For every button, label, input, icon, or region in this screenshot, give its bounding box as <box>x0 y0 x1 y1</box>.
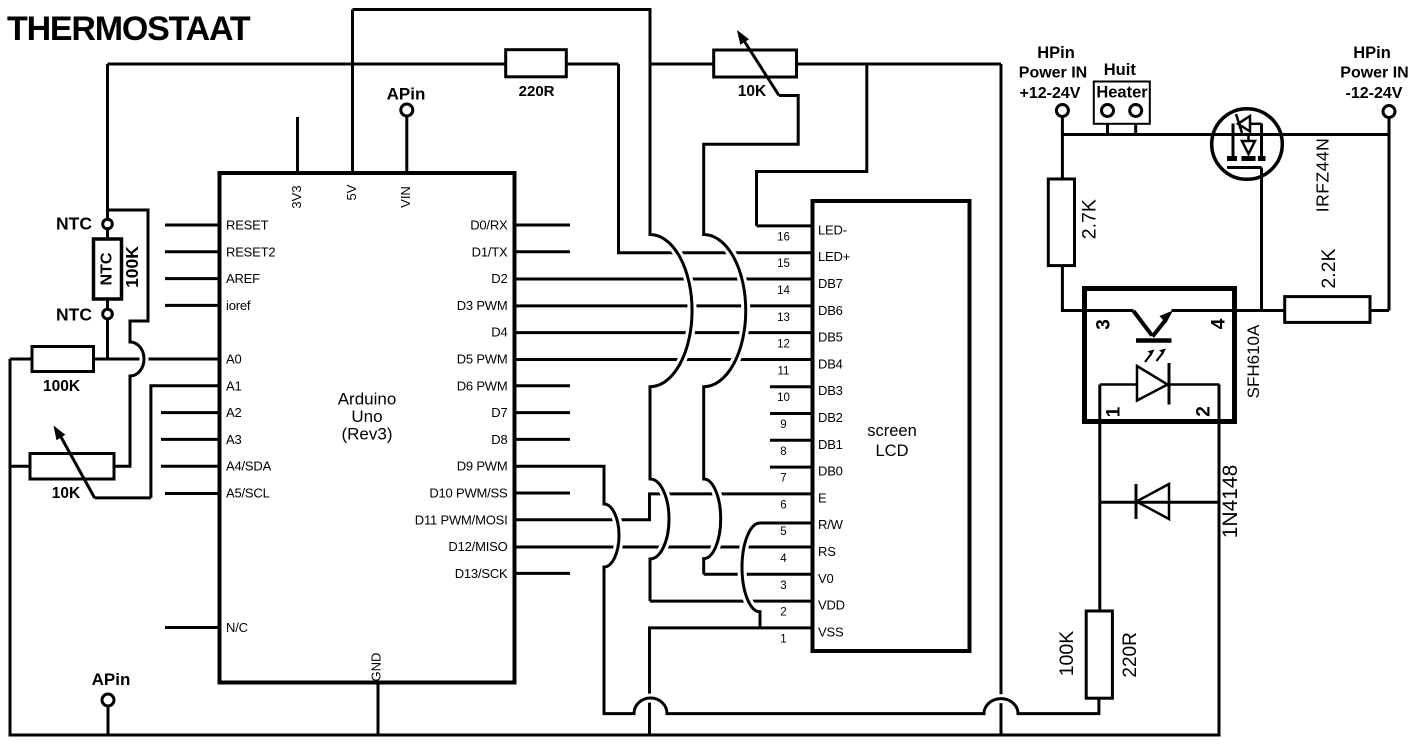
svg-text:14: 14 <box>777 285 790 297</box>
svg-text:D2: D2 <box>491 271 507 286</box>
svg-text:1: 1 <box>1104 406 1125 417</box>
svg-text:NTC: NTC <box>56 214 92 234</box>
wire HPin+ down <box>1061 117 1064 180</box>
wire opto pin4 to 2.2K <box>1172 309 1285 312</box>
wire VDD row <box>650 600 813 603</box>
wire VSS to ground <box>650 628 813 735</box>
wire D7 stub <box>515 411 571 414</box>
svg-text:7: 7 <box>780 473 786 485</box>
svg-text:9: 9 <box>780 419 786 431</box>
svg-text:DB7: DB7 <box>818 276 843 291</box>
Arduino U1 box <box>220 173 515 683</box>
svg-text:2.7K: 2.7K <box>1079 199 1101 239</box>
wire heater terminal leads <box>1108 117 1136 135</box>
svg-text:THERMOSTAAT: THERMOSTAAT <box>7 10 251 48</box>
svg-text:11: 11 <box>778 365 790 377</box>
label Arduino center text <box>338 390 397 444</box>
wire 5V top line to VDD with hops <box>353 10 693 602</box>
svg-text:1: 1 <box>780 633 786 645</box>
svg-text:100K: 100K <box>43 378 81 395</box>
resistor R4 2.2K box <box>1285 297 1370 323</box>
wire RESET stub <box>165 224 220 227</box>
svg-text:D10 PWM/SS: D10 PWM/SS <box>429 486 508 501</box>
svg-text:100K: 100K <box>122 246 142 288</box>
svg-text:Uno: Uno <box>351 407 382 426</box>
svg-text:A1: A1 <box>226 378 242 393</box>
potentiometer P1 10K box <box>30 454 114 480</box>
svg-text:A4/SDA: A4/SDA <box>226 459 272 474</box>
svg-text:Power IN: Power IN <box>1019 65 1087 82</box>
svg-text:10K: 10K <box>52 485 81 502</box>
svg-text:DB6: DB6 <box>818 303 843 318</box>
svg-text:SFH610A: SFH610A <box>1244 324 1263 398</box>
optocoupler U2 SFH610A box <box>1085 289 1235 422</box>
svg-text:D4: D4 <box>491 325 507 340</box>
potentiometer P2 arrow <box>737 30 779 96</box>
wire A5/SCL stub <box>165 492 220 495</box>
svg-text:Heater: Heater <box>1096 84 1148 102</box>
svg-text:5: 5 <box>780 526 786 538</box>
svg-text:D9 PWM: D9 PWM <box>457 459 508 474</box>
svg-text:IRFZ44N: IRFZ44N <box>1313 138 1333 212</box>
svg-text:GND: GND <box>368 653 383 682</box>
wire N/C stub <box>165 626 220 629</box>
wire LCD DB1 stub <box>770 439 813 442</box>
label screen LCD center text <box>867 422 917 460</box>
wire 2.2K to right rail <box>1370 309 1389 312</box>
wire ground left rail and bottom rail and right riser <box>10 359 1219 735</box>
svg-text:+12-24V: +12-24V <box>1020 85 1081 102</box>
svg-text:APin: APin <box>92 670 131 689</box>
wire drain rail y=134.5 <box>1062 133 1389 136</box>
svg-text:Huit: Huit <box>1104 61 1137 79</box>
potentiometer P1 arrow <box>54 426 95 498</box>
thermistor NTC 100K box <box>94 239 122 299</box>
svg-text:D11 PWM/MOSI: D11 PWM/MOSI <box>415 512 508 527</box>
wire pot P2 wiper to V0 with hops <box>704 96 799 575</box>
svg-text:DB5: DB5 <box>818 330 843 345</box>
svg-text:VIN: VIN <box>398 186 413 208</box>
diode D1 1N4148 <box>1136 484 1169 519</box>
heater connector box <box>1094 82 1150 124</box>
svg-text:12: 12 <box>777 339 790 351</box>
svg-text:LED-: LED- <box>818 222 847 237</box>
svg-text:AREF: AREF <box>226 271 260 286</box>
svg-text:3V3: 3V3 <box>289 185 304 208</box>
svg-text:5V: 5V <box>344 184 359 200</box>
wire D9 PWM to 100K/220R resistor with hops <box>515 466 1099 713</box>
svg-text:VSS: VSS <box>818 624 844 639</box>
wire NTC branch with hop over A0 to pot P1 <box>108 210 149 466</box>
wire pot GND riser <box>1000 64 1003 735</box>
svg-text:RESET: RESET <box>226 218 269 233</box>
wire D8 stub <box>515 438 571 441</box>
svg-text:VDD: VDD <box>818 598 845 613</box>
svg-text:Power IN: Power IN <box>1340 65 1408 82</box>
node APin terminal bottom <box>102 694 114 706</box>
wire V0 row <box>704 573 813 576</box>
svg-text:RS: RS <box>818 544 836 559</box>
label LCD pin numbers <box>777 231 790 645</box>
svg-text:DB1: DB1 <box>818 437 843 452</box>
svg-text:LCD: LCD <box>875 442 908 460</box>
svg-text:4: 4 <box>780 553 787 565</box>
node HPin- terminal <box>1383 106 1395 118</box>
svg-text:D5 PWM: D5 PWM <box>457 352 508 367</box>
wire A2 stub <box>161 411 220 414</box>
svg-text:2: 2 <box>1193 406 1214 417</box>
svg-text:D12/MISO: D12/MISO <box>448 539 507 554</box>
wire opto pin1 down to resistor <box>1098 385 1101 612</box>
svg-text:D3 PWM: D3 PWM <box>457 298 508 313</box>
wire 5V rail to pot P2 and GND riser <box>650 63 1001 66</box>
node heater terminal 1 <box>1102 105 1114 117</box>
wire HPin- right rail <box>1388 118 1391 311</box>
wire 220R to LCD LED+ <box>619 64 813 253</box>
svg-text:3: 3 <box>780 580 786 592</box>
svg-text:-12-24V: -12-24V <box>1346 85 1403 102</box>
svg-text:D8: D8 <box>491 432 507 447</box>
wire 3V3 stub <box>296 117 299 173</box>
svg-text:15: 15 <box>777 258 790 270</box>
wire wiper riser to A1 <box>151 386 220 498</box>
node NTC terminal top <box>103 219 113 229</box>
optocoupler U2 light arrows <box>1145 349 1166 363</box>
optocoupler U2 LED D2 <box>1100 363 1220 405</box>
svg-text:10: 10 <box>777 392 790 404</box>
transistor Q1 MOSFET IRFZ44N <box>1212 109 1283 180</box>
resistor R1 220R box <box>506 50 567 77</box>
wire LED- branch <box>757 64 867 226</box>
label Arduino left pins <box>226 218 275 636</box>
svg-text:V0: V0 <box>818 571 834 586</box>
svg-text:(Rev3): (Rev3) <box>341 425 392 444</box>
LCD module box <box>813 201 970 651</box>
wire APin bottom terminal to rail <box>107 706 110 735</box>
wire LCD DB3 stub <box>770 385 813 388</box>
svg-text:D13/SCK: D13/SCK <box>455 566 508 581</box>
wire 5V pin riser <box>351 10 354 174</box>
svg-text:220R: 220R <box>1120 632 1141 677</box>
svg-text:Arduino: Arduino <box>338 390 397 409</box>
wire D2 to LCD DB7 <box>515 278 813 281</box>
wire MOSFET gate riser <box>1260 168 1263 311</box>
label LCD pins <box>818 222 850 639</box>
svg-text:DB4: DB4 <box>818 356 843 371</box>
svg-text:2: 2 <box>780 607 786 619</box>
wire VIN to APin terminal <box>405 116 408 173</box>
svg-text:DB2: DB2 <box>818 410 843 425</box>
svg-text:10K: 10K <box>738 83 767 100</box>
svg-text:R/W: R/W <box>818 517 844 532</box>
resistor R3 2.7K box <box>1048 179 1074 266</box>
wire AREF stub <box>165 277 220 280</box>
wire A3 stub <box>161 438 220 441</box>
svg-text:6: 6 <box>780 499 786 511</box>
svg-text:4: 4 <box>1208 318 1229 329</box>
svg-text:NTC: NTC <box>99 252 116 285</box>
node HPin+ terminal <box>1056 105 1068 117</box>
wire pot P1 left lead <box>10 465 30 468</box>
svg-text:13: 13 <box>777 312 790 324</box>
wire D0/RX stub <box>515 224 571 227</box>
svg-text:2.2K: 2.2K <box>1318 248 1340 288</box>
wire D13 stub <box>515 572 571 575</box>
wire 2.7K to opto pin3 <box>1062 266 1133 311</box>
svg-text:HPin: HPin <box>1353 44 1391 62</box>
svg-text:N/C: N/C <box>226 620 248 635</box>
wire A0 to Arduino <box>108 358 220 361</box>
svg-text:100K: 100K <box>1056 631 1078 677</box>
svg-text:DB0: DB0 <box>818 464 843 479</box>
wire D5 to LCD DB4 <box>515 358 813 361</box>
wire RESET2 stub <box>165 250 220 253</box>
resistor R2 100K box <box>32 347 94 372</box>
wire LCD pin16 stub <box>757 224 813 227</box>
wire NTC column vertical <box>106 64 109 359</box>
wire D3 to LCD DB6 <box>515 304 813 307</box>
wire R/W to VSS hop arc <box>742 523 813 628</box>
svg-text:1N4148: 1N4148 <box>1219 465 1242 539</box>
hop arc casings <box>130 235 1018 714</box>
optocoupler U2 phototransistor <box>1134 311 1174 341</box>
svg-text:A2: A2 <box>226 405 242 420</box>
node APin terminal top <box>401 104 413 116</box>
label Arduino right pins <box>415 218 508 581</box>
node heater terminal 2 <box>1130 105 1142 117</box>
wire pot P1 wiper tail <box>95 496 151 499</box>
wire D1/TX stub <box>515 250 571 253</box>
svg-text:LED+: LED+ <box>818 249 850 264</box>
wire D12 to LCD RS <box>515 546 813 549</box>
svg-text:APin: APin <box>387 85 426 104</box>
wire A4/SDA stub <box>161 465 220 468</box>
wire GND pin to bottom rail <box>377 683 380 736</box>
wire 1N4148 row <box>1100 501 1220 504</box>
svg-text:NTC: NTC <box>56 305 92 325</box>
wire 5V/NTC top rail y=64 <box>108 63 619 66</box>
svg-text:A5/SCL: A5/SCL <box>226 486 270 501</box>
wire D11 to LCD E <box>515 494 813 520</box>
svg-text:D7: D7 <box>491 405 507 420</box>
wire LCD DB0 stub <box>770 466 813 469</box>
wire D4 to LCD DB5 <box>515 331 813 334</box>
wire D10 stub <box>515 492 571 495</box>
svg-text:A3: A3 <box>226 432 242 447</box>
resistor R5 100K/220R box <box>1086 611 1112 698</box>
svg-text:HPin: HPin <box>1037 44 1075 62</box>
svg-text:RESET2: RESET2 <box>226 244 275 259</box>
wire LCD DB2 stub <box>770 412 813 415</box>
svg-text:16: 16 <box>777 231 790 243</box>
svg-text:ioref: ioref <box>226 298 251 313</box>
node NTC terminal bottom <box>103 309 113 319</box>
wire ioref stub <box>165 304 220 307</box>
svg-text:screen: screen <box>867 422 917 440</box>
wire 100K-A0 row <box>10 358 108 361</box>
svg-text:D1/TX: D1/TX <box>472 244 508 259</box>
potentiometer P2 10K box <box>714 50 797 77</box>
svg-text:3: 3 <box>1094 319 1115 330</box>
label Arduino top pins rotated <box>289 184 413 681</box>
svg-text:DB3: DB3 <box>818 383 843 398</box>
svg-text:8: 8 <box>780 446 786 458</box>
svg-text:D0/RX: D0/RX <box>470 218 508 233</box>
svg-text:D6 PWM: D6 PWM <box>457 378 508 393</box>
svg-text:A0: A0 <box>226 352 242 367</box>
svg-text:E: E <box>818 490 827 505</box>
wire D6 stub <box>515 384 571 387</box>
svg-text:220R: 220R <box>519 83 555 100</box>
